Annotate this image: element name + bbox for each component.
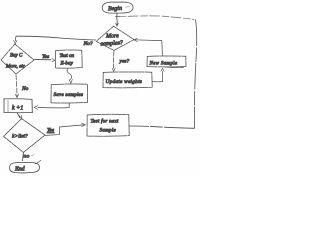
wire i+1 box to diamond3 (17, 113, 20, 118)
svg-text:No?: No? (83, 41, 93, 47)
wire loop-back bottom horizontal into Test-for-next-sample box (129, 126, 194, 128)
svg-text:No: No (21, 86, 29, 92)
wire diamond1 right to New Sample box (134, 40, 162, 56)
svg-text:no: no (24, 154, 30, 160)
wire diamond3 bottom to End (22, 153, 25, 161)
wire diamond2 bottom to i+1 box (16, 75, 17, 97)
decision diamond More samples (96, 26, 134, 50)
svg-text:Yes: Yes (42, 54, 49, 60)
svg-text:Begin: Begin (108, 6, 122, 12)
svg-text:Buy C: Buy C (10, 54, 23, 59)
svg-text:yes?: yes? (119, 59, 130, 65)
svg-text:Sample: Sample (100, 128, 117, 134)
svg-text:k>list?: k>list? (12, 134, 28, 140)
wire loop-back right vertical (194, 20, 196, 128)
svg-text:Test on: Test on (60, 53, 75, 59)
svg-text:samples?: samples? (100, 40, 123, 47)
svg-text:End: End (14, 167, 26, 173)
wire Update weights to New Sample (U shape) (153, 71, 163, 81)
wire Test-on-Ebay to Save-samples (squiggle) (67, 68, 71, 79)
process box Test for next Sample (87, 114, 129, 136)
svg-text:Yes: Yes (47, 128, 54, 134)
wire diamond3 to Test-for-next-Sample box (45, 125, 83, 135)
wire Save-samples down-left into i+1 box (38, 103, 69, 107)
terminator Begin (102, 2, 133, 13)
terminator End (10, 162, 40, 173)
svg-text:New Sample: New Sample (149, 60, 178, 66)
wire Begin to diamond More samples (116, 13, 118, 25)
svg-text:Update weights: Update weights (106, 79, 143, 85)
wire diamond1 bottom to Update weights (113, 51, 115, 68)
svg-text:E-bay: E-bay (60, 60, 74, 66)
process box Test on E-bay (55, 50, 82, 68)
process box Update weights (103, 72, 152, 88)
junction tick (115, 15, 119, 17)
wire No branch to left diamond (16, 36, 96, 40)
svg-text:k +1: k +1 (12, 106, 23, 112)
decision diamond 3 (4, 119, 45, 153)
wire loop-back top horizontal (right column to begin line) (119, 16, 194, 20)
process box i+1 (with overshoot strokes) (4, 98, 32, 101)
svg-text:More, etc: More, etc (5, 65, 26, 70)
svg-text:More: More (105, 34, 119, 40)
svg-text:Save samples: Save samples (54, 92, 84, 98)
decision diamond 2 (left) (1, 44, 34, 74)
svg-text:Test for next: Test for next (91, 118, 119, 125)
wire diamond2 to Test-on-Ebay box (35, 59, 51, 61)
process box Save samples (51, 84, 88, 103)
process box New Sample (147, 56, 186, 67)
